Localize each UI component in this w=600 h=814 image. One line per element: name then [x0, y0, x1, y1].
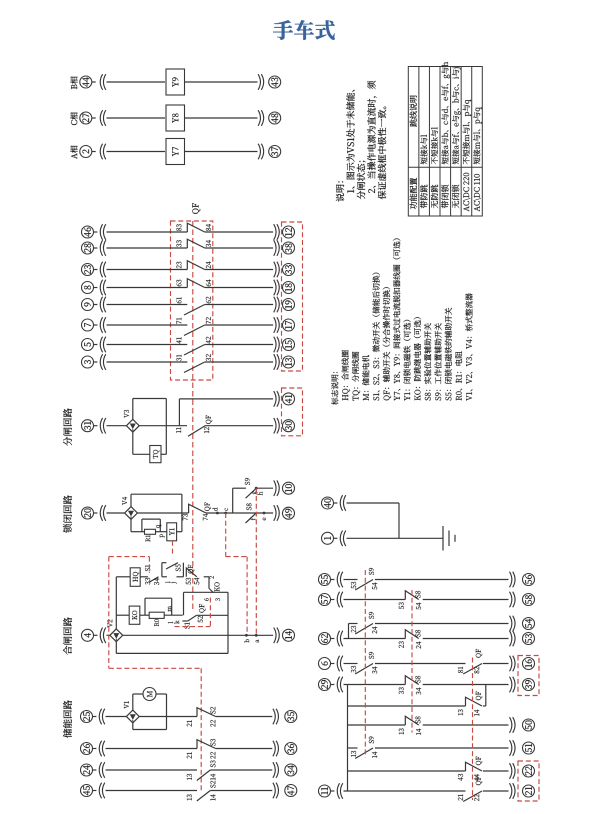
wire: [348, 624, 350, 639]
wire: [483, 663, 509, 665]
wire: [93, 287, 97, 289]
closing coil HQ: [130, 568, 140, 587]
switch S9 contact 33-34: [355, 664, 373, 675]
pin 84: [206, 224, 211, 231]
pin 82: [474, 667, 479, 674]
terminal 46: [82, 226, 94, 238]
label S9: [369, 612, 374, 619]
QF aux contact 83-84: [187, 223, 204, 232]
terminal 36: [285, 743, 297, 755]
pin 54: [194, 578, 199, 585]
label V2: [107, 620, 112, 628]
label QF: [206, 415, 212, 424]
plug connector: [100, 354, 102, 370]
terminal b: [244, 639, 249, 642]
pin 64: [206, 280, 211, 287]
wire: [216, 716, 273, 718]
wire: [185, 81, 258, 83]
terminal 51: [523, 742, 535, 754]
terminal f: [250, 518, 255, 521]
terminal 55: [319, 574, 331, 586]
anti-pump relay KO: [129, 606, 140, 624]
pin 24: [206, 262, 211, 269]
wire: [93, 324, 97, 326]
wire: [205, 247, 273, 249]
wire: [166, 694, 168, 730]
terminal 33: [283, 264, 295, 276]
plug connector: [100, 418, 102, 434]
terminal 24: [81, 764, 93, 776]
wire: [139, 716, 197, 718]
wire: [132, 694, 134, 710]
terminal l: [168, 622, 173, 624]
label QF: [205, 502, 211, 511]
QF contact 43-44: [466, 762, 483, 771]
plug connector: [100, 74, 102, 90]
wire: [107, 361, 188, 363]
plug connector: [100, 144, 102, 160]
pin 14: [416, 729, 421, 735]
wire: [375, 579, 509, 581]
terminal 54: [523, 618, 535, 630]
pin 74: [203, 514, 208, 521]
terminal 3: [82, 356, 94, 368]
dashed box around right terminals: [282, 222, 303, 371]
terminal 35: [285, 711, 297, 723]
pin 21: [187, 720, 192, 726]
table row 无防跳: [431, 185, 438, 208]
pin 32: [206, 354, 211, 361]
wire: [181, 494, 183, 532]
rectifier V4: [125, 507, 138, 520]
dashed box terminals 16 39: [518, 656, 539, 696]
switch S5 contact: [166, 563, 178, 569]
plug connector: [274, 505, 276, 521]
plug connector: [510, 616, 512, 632]
terminal 15: [283, 339, 295, 351]
plug connector: [510, 572, 512, 588]
pin 81: [458, 667, 463, 673]
label S2: [210, 707, 215, 714]
terminal 44: [80, 76, 92, 88]
terminal 37: [269, 146, 281, 158]
wire: [133, 693, 143, 695]
trip coil Y8: [166, 105, 185, 131]
switch S1 contact 33-34: [149, 577, 159, 583]
QF aux contact 41-42: [184, 345, 205, 356]
wire: [93, 269, 97, 271]
wire: [107, 634, 110, 636]
plug connector: [100, 280, 102, 296]
QF boundary dashed mid line: [192, 221, 194, 611]
label S8: [246, 503, 251, 510]
label V1: [124, 701, 129, 708]
pin 71: [176, 318, 181, 324]
wire: [162, 562, 167, 564]
wire: [423, 599, 509, 601]
switch S2 contact 13-14: [197, 791, 211, 802]
terminal 18: [283, 282, 295, 294]
plug connector: [337, 572, 339, 588]
pin 41: [176, 337, 181, 343]
wire: [210, 790, 272, 792]
wire: [333, 537, 337, 539]
terminal m: [168, 606, 171, 611]
wire: [92, 716, 96, 718]
terminal 56: [523, 574, 535, 586]
wire: [344, 579, 358, 581]
plug connector: [274, 262, 276, 278]
plug connector: [274, 628, 276, 644]
wire: [205, 344, 273, 346]
pin 44: [474, 774, 479, 781]
pin 53: [399, 602, 404, 609]
pin 33: [145, 578, 150, 585]
dashed link Y1 to S5: [172, 541, 174, 557]
pin 22: [210, 720, 215, 727]
pin 54: [372, 583, 377, 590]
dashed boundary: [109, 667, 201, 669]
section label 分闸回路: [63, 408, 72, 445]
terminal 34: [285, 764, 297, 776]
pin 23: [351, 626, 356, 633]
pin 53: [351, 582, 356, 589]
wire: [92, 117, 96, 119]
switch S8 contact 33-34: [405, 676, 418, 685]
wire: [107, 512, 125, 514]
wire: [131, 493, 182, 495]
plug connector: [337, 656, 339, 672]
wire: [142, 518, 160, 520]
wire: [375, 747, 509, 749]
wire: [330, 579, 334, 581]
legend 标志说明: [331, 372, 338, 405]
wire: [347, 537, 444, 539]
dashed boundary: [148, 557, 150, 573]
wire: [206, 512, 273, 514]
node a: [255, 634, 258, 637]
wire: [115, 577, 117, 629]
QF contact 11-12: [188, 426, 205, 437]
label S1: [145, 565, 150, 571]
wire: [107, 304, 188, 306]
wire: [330, 663, 334, 665]
label QF: [476, 692, 482, 701]
plug connector: [510, 631, 512, 647]
wire: [144, 598, 146, 615]
switch S8 contact 53-54: [405, 591, 418, 600]
wire: [161, 563, 163, 577]
wire: [423, 684, 509, 686]
switch S9 contact g-h: [246, 488, 257, 498]
QF contact 53-54: [186, 568, 197, 577]
table row AC\DC 220: [463, 173, 470, 212]
plug connector: [274, 317, 276, 333]
plug connector: [99, 762, 101, 778]
terminal 48: [269, 112, 281, 124]
trip coil Y7: [166, 139, 185, 165]
pin 24: [372, 627, 377, 634]
wire: [182, 563, 184, 577]
terminal 43: [269, 76, 281, 88]
terminal 6: [204, 598, 209, 601]
label R1: [146, 535, 151, 542]
wire: [145, 597, 172, 599]
pin 23: [399, 641, 404, 648]
pin 23: [176, 262, 181, 269]
plug connector: [510, 763, 512, 779]
switch S9 contact 53-54: [355, 580, 373, 591]
wire: [107, 151, 166, 153]
QF contact 81-82: [463, 664, 482, 675]
wire: [107, 247, 188, 249]
QF aux contact 23-24: [187, 261, 204, 270]
terminal 57: [319, 594, 331, 606]
plug connector: [100, 297, 102, 313]
terminal 1: [322, 532, 334, 544]
plug connector: [99, 741, 101, 757]
plug connector: [337, 631, 339, 647]
pin 52: [198, 616, 203, 623]
QF boundary dashed box: [171, 221, 213, 380]
wire: [349, 623, 358, 625]
wire: [204, 576, 209, 578]
switch S3 contact 21-22: [197, 740, 216, 749]
wire: [107, 269, 188, 271]
closing circuit main wire: [123, 634, 273, 636]
wire: [348, 705, 466, 707]
terminal 27: [80, 112, 92, 124]
label S9: [369, 736, 374, 743]
terminal e: [263, 518, 266, 521]
wire: [140, 614, 149, 616]
plug connector: [100, 110, 102, 126]
wire: [132, 399, 134, 420]
terminal 7: [82, 319, 94, 331]
section label 储能回路: [63, 700, 72, 737]
pin 13: [187, 774, 192, 780]
wire: [233, 487, 246, 489]
pin 61: [176, 297, 181, 303]
label V3: [124, 410, 129, 418]
wire: [133, 398, 167, 400]
motor M: [143, 688, 156, 701]
switch S1 contact k-52: [188, 615, 197, 621]
label V4: [122, 497, 127, 505]
wire: [130, 519, 132, 531]
label S8: [415, 676, 420, 683]
terminal q: [156, 525, 161, 528]
wire: [344, 638, 406, 640]
wire: [185, 117, 258, 119]
wire: [107, 344, 188, 346]
pin 13: [399, 728, 404, 734]
pin 21: [187, 752, 192, 758]
terminal 41: [283, 393, 295, 405]
dashed box around QF 52: [175, 626, 211, 628]
terminal 17: [283, 319, 295, 331]
terminal 28: [82, 242, 94, 254]
pin 62: [206, 297, 211, 304]
wire: [483, 705, 486, 707]
terminal 21: [523, 785, 535, 797]
terminal 29: [319, 679, 331, 691]
wire: [139, 425, 187, 427]
terminal 16: [523, 658, 535, 670]
section label 锁闭回路: [63, 495, 72, 532]
wire: [93, 304, 97, 306]
label S2: [210, 781, 215, 788]
wire: [205, 425, 273, 427]
terminal 5: [82, 339, 94, 351]
pin 14: [210, 774, 215, 780]
dashed box around terminals 41 30: [282, 388, 303, 436]
wire: [107, 231, 188, 233]
wire: [256, 487, 273, 489]
pin 21: [458, 794, 463, 800]
terminal 10: [283, 482, 295, 494]
wire: [348, 747, 358, 749]
table row 带防跳: [420, 185, 427, 208]
pin 73: [183, 514, 188, 520]
plug connector: [274, 224, 276, 240]
rectifier V2: [110, 629, 123, 642]
wire: [205, 304, 273, 306]
wire: [184, 591, 229, 593]
terminal 8: [82, 282, 94, 294]
wire: [344, 663, 358, 665]
pin 34: [206, 240, 211, 247]
wire: [137, 512, 188, 514]
wire: [93, 344, 97, 346]
plug connector: [274, 391, 276, 407]
terminal 9: [82, 299, 94, 311]
terminal 14: [283, 629, 295, 641]
plug connector: [100, 317, 102, 333]
wire: [115, 642, 117, 654]
dashed box around QF 52: [209, 598, 211, 627]
wire: [164, 614, 183, 616]
pin 33: [176, 240, 181, 247]
table row 带闭锁: [441, 185, 448, 208]
wire: [116, 652, 228, 654]
dashed S9 boundary: [364, 570, 366, 758]
stub: [182, 620, 187, 622]
wire: [205, 269, 273, 271]
label S3: [210, 739, 215, 746]
wire: [183, 592, 185, 615]
label S9: [369, 568, 374, 575]
phase label C相: [70, 112, 77, 125]
wire: [165, 399, 167, 455]
terminal 22: [523, 765, 535, 777]
pin 54: [416, 603, 421, 610]
plug connector: [100, 505, 102, 521]
QF aux contact 63-64: [187, 279, 204, 288]
plug connector: [510, 717, 512, 733]
terminal i: [165, 581, 170, 583]
plug connector: [337, 592, 339, 608]
QF aux contact 31-32: [184, 362, 205, 373]
wire: [132, 723, 134, 730]
wire: [196, 614, 228, 616]
terminal 19: [283, 299, 295, 311]
label S9: [369, 652, 374, 659]
terminal 38: [283, 242, 295, 254]
wire: [93, 512, 97, 514]
dashed link from S9: [255, 488, 257, 635]
pin 11: [176, 427, 181, 432]
plug connector: [510, 677, 512, 693]
pin 63: [176, 280, 181, 287]
plug connector: [100, 224, 102, 240]
terminal 11: [319, 785, 331, 797]
wire: [330, 790, 334, 792]
trip coil TQ: [150, 446, 161, 463]
pin 24: [416, 642, 421, 649]
plug connector: [274, 240, 276, 256]
label S3: [210, 761, 215, 768]
pin 33: [399, 687, 404, 694]
wire: [93, 425, 97, 427]
wire: [107, 81, 166, 83]
wire: [156, 693, 167, 695]
wire: [106, 769, 198, 771]
terminal 6: [319, 658, 331, 670]
rectifier V1: [126, 710, 139, 723]
plug connector: [340, 495, 342, 511]
label QF: [476, 757, 482, 766]
plug connector: [100, 240, 102, 256]
pin 72: [206, 317, 211, 324]
QF contact 73-74: [189, 504, 206, 513]
node c: [224, 512, 227, 515]
plug connector: [274, 280, 276, 296]
pin 22: [210, 752, 215, 759]
plug connector: [274, 418, 276, 434]
plug connector: [99, 783, 101, 799]
plug connector: [510, 740, 512, 756]
trip coil Y9: [166, 69, 185, 95]
wire: [185, 151, 258, 153]
terminal 31: [82, 420, 94, 432]
label S8: [415, 591, 420, 598]
terminal 23: [82, 264, 94, 276]
pin 14: [474, 710, 479, 716]
plug connector: [100, 262, 102, 278]
wire: [375, 663, 466, 665]
pin 13: [351, 751, 356, 757]
terminal 20: [82, 507, 94, 519]
switch S2 contact 21-22: [197, 708, 216, 717]
wire: [330, 638, 334, 640]
node b: [245, 634, 248, 637]
terminal h: [258, 492, 263, 496]
terminal 47: [285, 785, 297, 797]
plug connector: [337, 783, 339, 799]
terminal p: [160, 534, 165, 537]
wire: [210, 769, 272, 771]
terminal 39: [523, 679, 535, 691]
node d: [216, 512, 219, 515]
plug connector: [510, 592, 512, 608]
wire: [177, 531, 182, 533]
terminal 53: [523, 633, 535, 645]
QF aux contact 61-62: [184, 305, 205, 316]
wire: [159, 519, 161, 532]
table row AC\DC 110: [474, 174, 481, 211]
switch S8 contact 23-24: [405, 630, 418, 639]
